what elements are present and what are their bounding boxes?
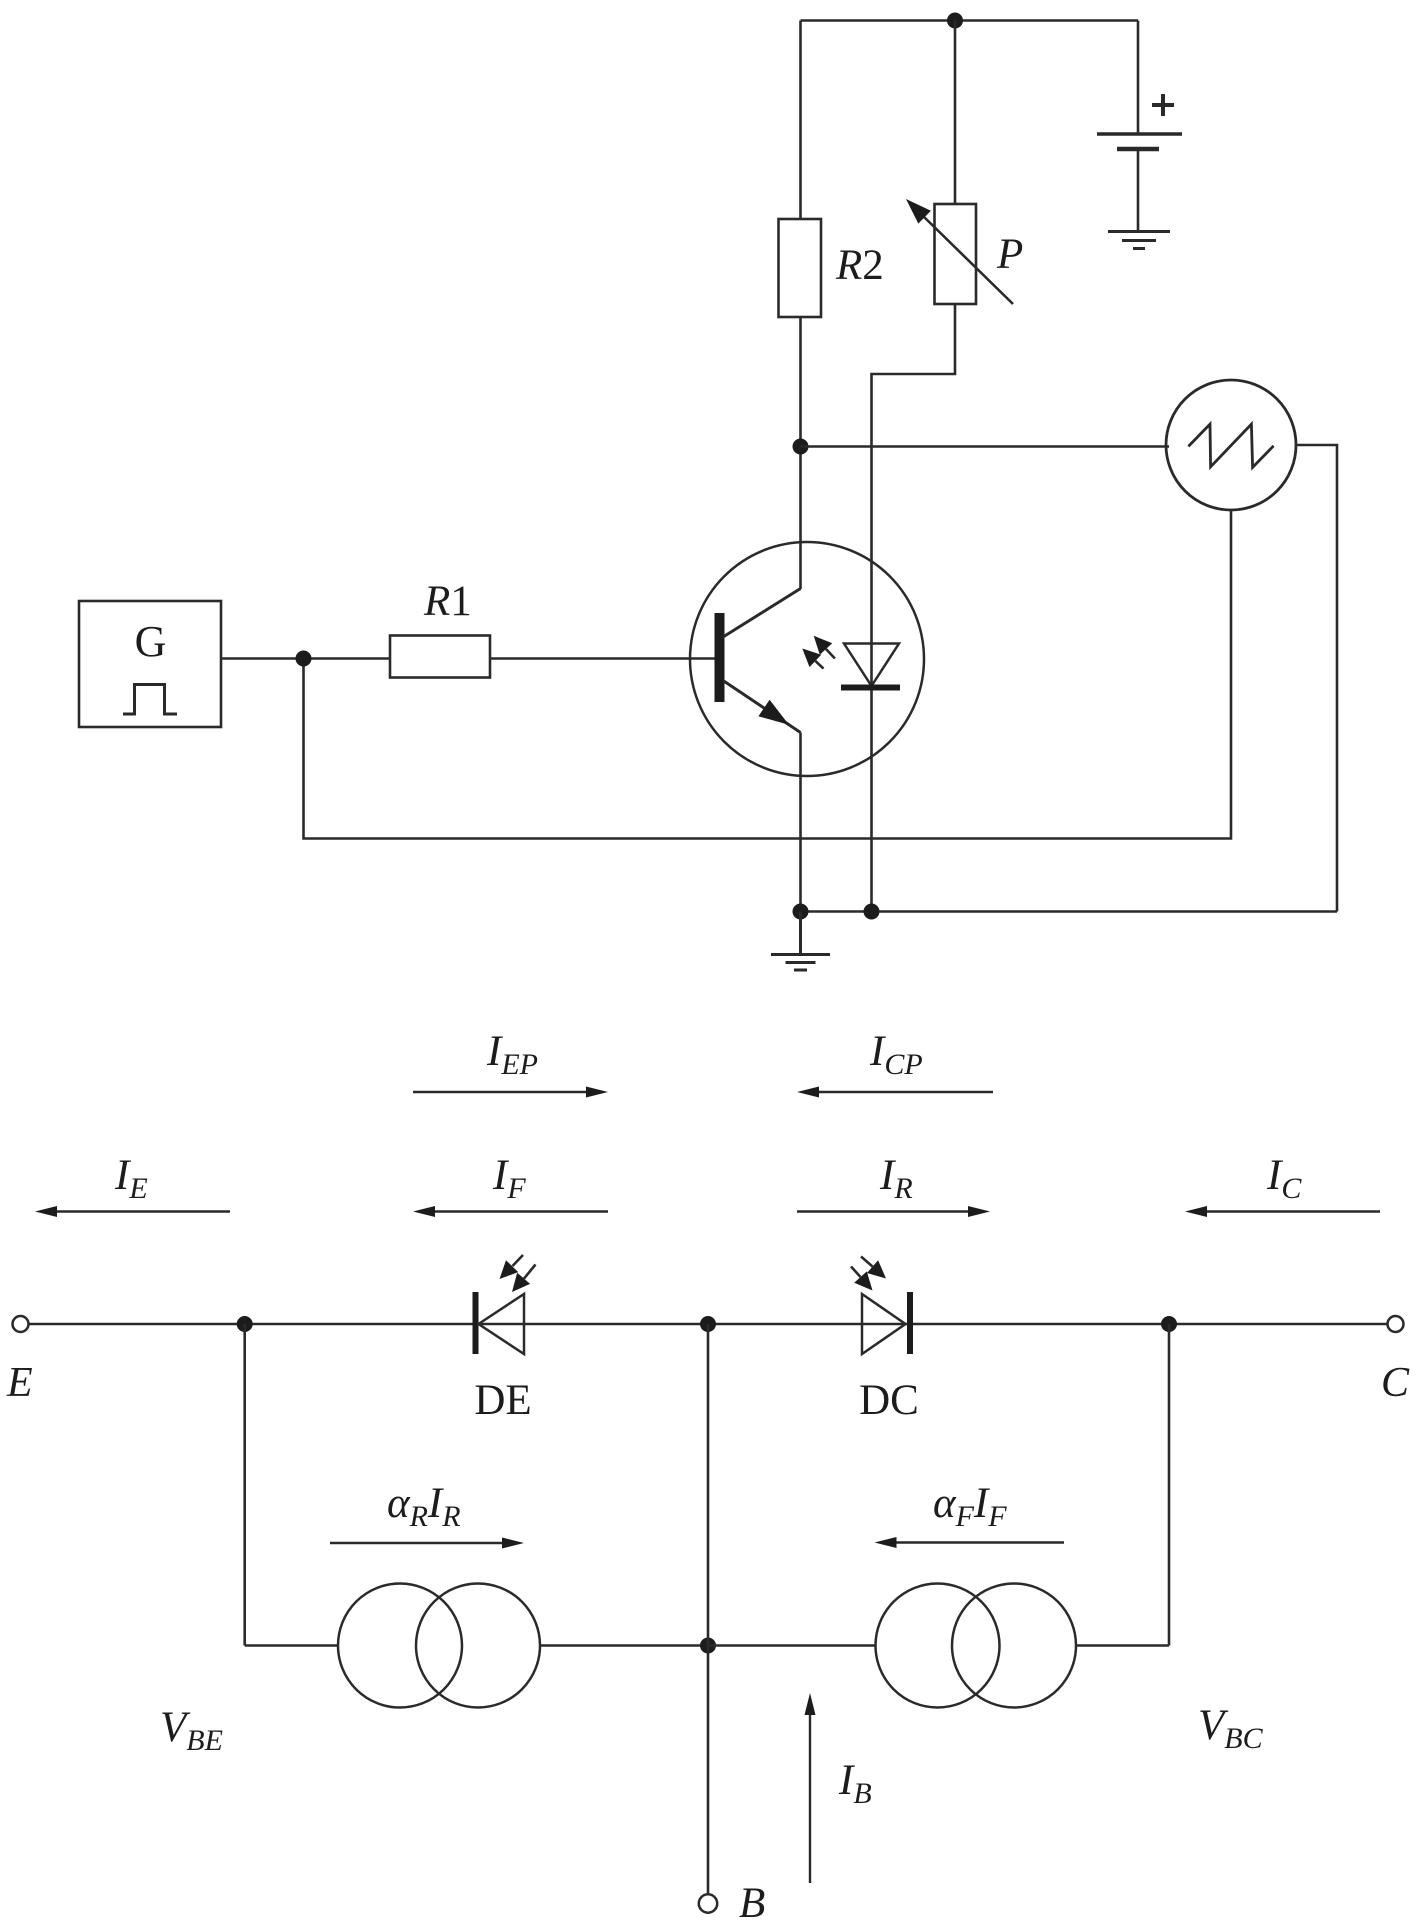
wire P wiper jog to LED xyxy=(872,304,956,912)
svg-text:G: G xyxy=(135,617,167,666)
svg-text:VBC: VBC xyxy=(1198,1702,1264,1755)
node collector junction xyxy=(793,439,809,455)
wire B node to right source xyxy=(708,1644,876,1647)
wire right source to C drop xyxy=(1076,1644,1169,1647)
node B junction xyxy=(700,1638,716,1654)
svg-text:B: B xyxy=(739,1880,765,1927)
svg-text:E: E xyxy=(6,1360,33,1406)
diode DE xyxy=(473,1292,525,1354)
arrow IF xyxy=(413,1206,608,1217)
wire emitter down xyxy=(799,733,802,912)
wire left source to B node xyxy=(540,1644,708,1647)
wire oscilloscope right to emitter line xyxy=(1296,445,1337,912)
diode DC xyxy=(862,1292,913,1354)
light arrows LED to transistor xyxy=(802,636,835,669)
svg-text:DE: DE xyxy=(474,1377,531,1424)
svg-text:IF: IF xyxy=(492,1152,526,1205)
arrow IC xyxy=(1185,1206,1380,1217)
svg-text:VBE: VBE xyxy=(160,1704,223,1757)
svg-text:P: P xyxy=(996,231,1023,278)
node E branch xyxy=(237,1316,253,1332)
wire rail to P xyxy=(954,21,957,206)
node LED cathode junction xyxy=(864,904,880,920)
wire collector node to oscilloscope xyxy=(801,445,1170,448)
resistor R2 xyxy=(779,219,822,317)
arrow alphaF IF xyxy=(875,1537,1065,1548)
node emitter ground junction xyxy=(793,904,809,920)
node top rail junction xyxy=(947,13,963,29)
terminal E xyxy=(13,1316,29,1332)
svg-text:DC: DC xyxy=(859,1377,919,1424)
wire to left current source xyxy=(245,1644,338,1647)
wire rail to R2 xyxy=(799,21,802,221)
label + polarity xyxy=(1152,94,1174,116)
wire B stem xyxy=(707,1324,710,1895)
wire G to R1 xyxy=(221,657,390,660)
wire R2 to collector xyxy=(799,317,802,589)
oscilloscope OSC xyxy=(1166,380,1296,510)
generator G xyxy=(79,601,221,727)
node base branch xyxy=(296,651,312,667)
svg-text:IR: IR xyxy=(879,1152,913,1205)
wire emitter bottom line xyxy=(801,910,1338,913)
wire R1 to base xyxy=(490,657,715,660)
node B branch xyxy=(700,1316,716,1332)
resistor R1 xyxy=(390,636,490,678)
svg-text:C: C xyxy=(1381,1360,1410,1406)
arrow IE xyxy=(35,1206,230,1217)
current source alphaR IR xyxy=(338,1584,540,1708)
light arrows DC xyxy=(851,1257,886,1291)
svg-text:IB: IB xyxy=(838,1757,872,1810)
wire top supply rail xyxy=(801,19,1139,22)
wire E node down xyxy=(243,1324,246,1646)
terminal C xyxy=(1388,1316,1404,1332)
arrow IEP xyxy=(413,1087,608,1098)
wire C node down xyxy=(1168,1324,1171,1646)
svg-text:IEP: IEP xyxy=(486,1028,538,1081)
light arrows DE xyxy=(500,1255,536,1292)
svg-text:IE: IE xyxy=(114,1152,148,1205)
svg-text:αRIR: αRIR xyxy=(387,1480,461,1533)
wire oscilloscope bottom to base return xyxy=(304,510,1232,839)
node C branch xyxy=(1161,1316,1177,1332)
potentiometer P xyxy=(906,199,1013,304)
wire model main E-C line xyxy=(29,1323,1387,1326)
battery V+ xyxy=(1097,21,1182,232)
svg-text:IC: IC xyxy=(1266,1152,1302,1205)
arrow ICP xyxy=(797,1087,993,1098)
arrow IB xyxy=(805,1693,816,1883)
svg-text:αFIF: αFIF xyxy=(933,1480,1007,1533)
arrow IR xyxy=(797,1206,990,1217)
phototransistor with LED U1 xyxy=(690,542,924,776)
arrow alphaR IR xyxy=(330,1538,524,1549)
current source alphaF IF xyxy=(876,1584,1077,1708)
svg-text:R2: R2 xyxy=(835,242,884,289)
ground battery xyxy=(1108,232,1170,249)
svg-text:ICP: ICP xyxy=(869,1028,923,1081)
LED inside transistor xyxy=(841,644,900,691)
terminal B xyxy=(699,1894,717,1912)
ground emitter xyxy=(771,912,830,971)
svg-text:R1: R1 xyxy=(423,578,472,625)
